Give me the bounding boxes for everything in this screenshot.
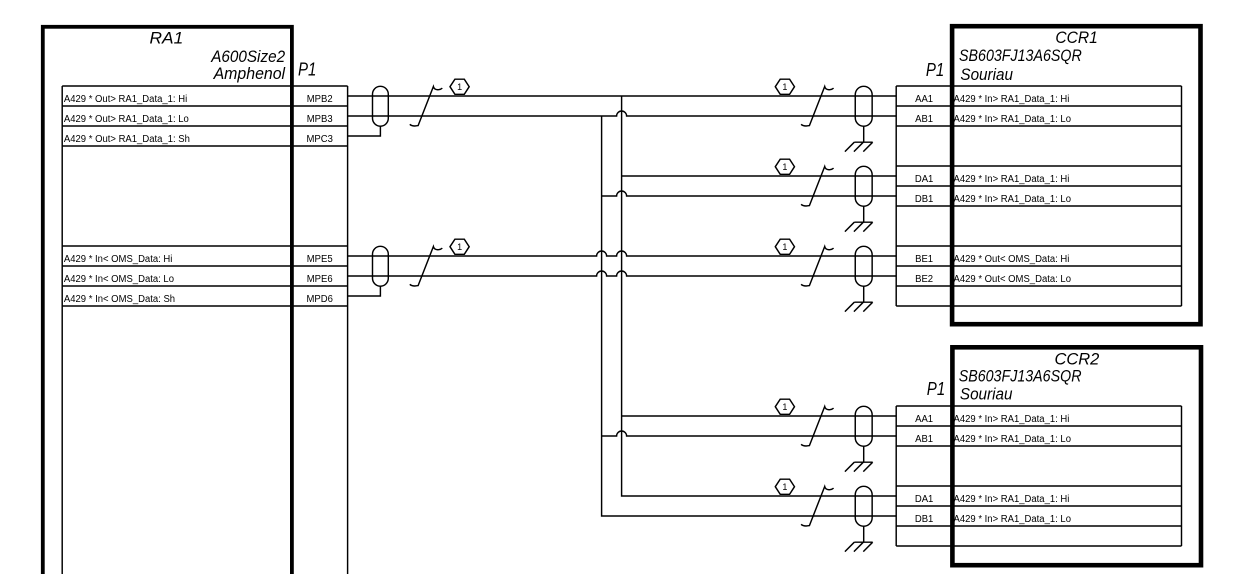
chassis ground at CCR1 BE1/BE2 pair xyxy=(845,286,873,311)
lay/twist slash symbol at CCR1 DA1/DB1 pair xyxy=(801,167,834,206)
wire Lo bus vertical (node RA1_Data_1 Lo) down to CCR2 DB1 xyxy=(602,116,897,516)
svg-text:A429 * Out> RA1_Data_1: Lo: A429 * Out> RA1_Data_1: Lo xyxy=(64,114,189,125)
svg-text:A429 * Out> RA1_Data_1: Sh: A429 * Out> RA1_Data_1: Sh xyxy=(64,134,190,145)
shield symbol (twisted shielded pair) at CCR2 AA1/AB1 pair xyxy=(855,406,872,446)
wire OMS_Data Sh: MPD6 to shield symbol xyxy=(348,286,381,296)
wire RA1_Data_1 Sh: MPC3 to shield symbol xyxy=(348,126,381,136)
svg-text:A429 * In> RA1_Data_1: Hi: A429 * In> RA1_Data_1: Hi xyxy=(954,94,1070,105)
svg-text:RA1: RA1 xyxy=(150,28,184,47)
svg-text:1: 1 xyxy=(782,242,787,252)
svg-text:SB603FJ13A6SQR: SB603FJ13A6SQR xyxy=(959,366,1082,385)
svg-text:A429 * In> RA1_Data_1: Hi: A429 * In> RA1_Data_1: Hi xyxy=(954,414,1070,425)
svg-text:CCR1: CCR1 xyxy=(1055,28,1097,47)
shield symbol (twisted shielded pair) at CCR1 DA1/DB1 pair xyxy=(855,166,872,206)
svg-text:AB1: AB1 xyxy=(915,434,933,445)
bundle callout hexagon 1 at CCR1 AA1/AB1 pair xyxy=(775,79,794,94)
bundle callout hexagon 1 at CCR2 AA1/AB1 pair xyxy=(775,399,794,414)
shield symbol (twisted shielded pair) at RA1 side of OMS_Data pair xyxy=(373,246,389,286)
lay/twist slash symbol at CCR2 AA1/AB1 pair xyxy=(801,407,834,446)
lay/twist slash symbol at RA1 side of OMS_Data pair xyxy=(410,247,443,286)
connector CCR2 box outline xyxy=(952,347,1201,565)
svg-text:MPE5: MPE5 xyxy=(307,254,333,265)
shield symbol (twisted shielded pair) at CCR2 DA1/DB1 pair xyxy=(855,486,872,526)
wire RA1_Data_1 Hi: MPB2 to CCR1 AA1 xyxy=(348,95,897,97)
svg-text:1: 1 xyxy=(782,162,787,172)
svg-text:A429 * In< OMS_Data: Sh: A429 * In< OMS_Data: Sh xyxy=(64,294,175,305)
svg-text:BE1: BE1 xyxy=(915,254,933,265)
svg-text:A429 * In> RA1_Data_1: Lo: A429 * In> RA1_Data_1: Lo xyxy=(954,514,1072,525)
wire RA1_Data_1 Hi branch to CCR1 DA1 xyxy=(622,175,897,177)
svg-text:MPB2: MPB2 xyxy=(307,94,333,105)
lay/twist slash symbol at RA1 side of RA1_Data_1 pair xyxy=(410,87,443,126)
svg-text:DA1: DA1 xyxy=(915,494,934,505)
svg-text:A429 * Out< OMS_Data: Hi: A429 * Out< OMS_Data: Hi xyxy=(954,254,1070,265)
svg-text:P1: P1 xyxy=(298,60,316,80)
wire RA1_Data_1 Lo branch to CCR2 AB1 (hop over Hi bus) xyxy=(602,431,897,436)
bundle callout hexagon 1 at RA1 side of RA1_Data_1 pair xyxy=(450,79,469,94)
svg-text:1: 1 xyxy=(782,82,787,92)
wire RA1_Data_1 Lo: MPB3 to CCR1 AB1 (hop over Hi bus) xyxy=(348,111,897,116)
svg-text:AA1: AA1 xyxy=(915,414,933,425)
svg-text:P1: P1 xyxy=(927,379,945,399)
svg-text:A429 * In> RA1_Data_1: Lo: A429 * In> RA1_Data_1: Lo xyxy=(954,194,1072,205)
bundle callout hexagon 1 at CCR1 DA1/DB1 pair xyxy=(775,159,794,174)
shield symbol (twisted shielded pair) at CCR1 AA1/AB1 pair xyxy=(855,86,872,126)
svg-text:MPC3: MPC3 xyxy=(307,134,334,145)
svg-text:A429 * Out> RA1_Data_1: Hi: A429 * Out> RA1_Data_1: Hi xyxy=(64,94,187,105)
RA1 signal/pin table grid xyxy=(62,86,347,574)
svg-text:A429 * Out< OMS_Data: Lo: A429 * Out< OMS_Data: Lo xyxy=(954,274,1072,285)
connector RA1 box outline xyxy=(43,27,292,574)
wire Hi bus vertical (node RA1_Data_1 Hi) down to CCR2 DA1 xyxy=(622,96,897,496)
bundle callout hexagon 1 at CCR1 BE1/BE2 pair xyxy=(775,239,794,254)
CCR1 signal/pin table grid xyxy=(896,86,1181,306)
lay/twist slash symbol at CCR2 DA1/DB1 pair xyxy=(801,487,834,526)
svg-text:A429 * In> RA1_Data_1: Lo: A429 * In> RA1_Data_1: Lo xyxy=(954,434,1072,445)
shield symbol (twisted shielded pair) at RA1 side of RA1_Data_1 pair xyxy=(373,86,389,126)
shield symbol (twisted shielded pair) at CCR1 BE1/BE2 pair xyxy=(855,246,872,286)
wire OMS_Data Lo: MPE6 to CCR1 BE2 (hops over both buses) xyxy=(348,271,897,276)
wire RA1_Data_1 Hi branch to CCR2 AA1 xyxy=(622,415,897,417)
svg-text:DB1: DB1 xyxy=(915,194,934,205)
svg-text:A429 * In> RA1_Data_1: Hi: A429 * In> RA1_Data_1: Hi xyxy=(954,494,1070,505)
svg-text:A429 * In< OMS_Data: Lo: A429 * In< OMS_Data: Lo xyxy=(64,274,175,285)
bundle callout hexagon 1 at RA1 side of OMS_Data pair xyxy=(450,239,469,254)
svg-text:MPD6: MPD6 xyxy=(307,294,334,305)
svg-text:A429 * In> RA1_Data_1: Lo: A429 * In> RA1_Data_1: Lo xyxy=(954,114,1072,125)
CCR2 signal/pin table grid xyxy=(896,406,1181,546)
svg-text:DA1: DA1 xyxy=(915,174,934,185)
chassis ground at CCR2 DA1/DB1 pair xyxy=(845,526,873,551)
bundle callout hexagon 1 at CCR2 DA1/DB1 pair xyxy=(775,479,794,494)
svg-text:MPB3: MPB3 xyxy=(307,114,333,125)
svg-text:A429 * In< OMS_Data: Hi: A429 * In< OMS_Data: Hi xyxy=(64,254,172,265)
connector CCR1 box outline xyxy=(952,26,1200,324)
svg-text:Souriau: Souriau xyxy=(960,65,1013,84)
svg-text:1: 1 xyxy=(782,402,787,412)
chassis ground at CCR1 DA1/DB1 pair xyxy=(845,206,873,231)
chassis ground at CCR1 AA1/AB1 pair xyxy=(845,126,873,151)
svg-text:P1: P1 xyxy=(926,60,944,80)
svg-text:Amphenol: Amphenol xyxy=(213,64,287,83)
wire RA1_Data_1 Lo branch to CCR1 DB1 (hop over Hi bus) xyxy=(602,191,897,196)
svg-text:1: 1 xyxy=(782,482,787,492)
chassis ground at CCR2 AA1/AB1 pair xyxy=(845,446,873,471)
lay/twist slash symbol at CCR1 BE1/BE2 pair xyxy=(801,247,834,286)
wire OMS_Data Hi: MPE5 to CCR1 BE1 (hops over both buses) xyxy=(348,251,897,256)
svg-text:MPE6: MPE6 xyxy=(307,274,333,285)
svg-text:A429 * In> RA1_Data_1: Hi: A429 * In> RA1_Data_1: Hi xyxy=(954,174,1070,185)
svg-text:1: 1 xyxy=(457,242,462,252)
svg-text:1: 1 xyxy=(457,82,462,92)
svg-text:BE2: BE2 xyxy=(915,274,933,285)
lay/twist slash symbol at CCR1 AA1/AB1 pair xyxy=(801,87,834,126)
svg-text:AB1: AB1 xyxy=(915,114,933,125)
svg-text:AA1: AA1 xyxy=(915,94,933,105)
svg-text:SB603FJ13A6SQR: SB603FJ13A6SQR xyxy=(959,46,1082,65)
svg-text:DB1: DB1 xyxy=(915,514,934,525)
svg-text:Souriau: Souriau xyxy=(960,384,1013,403)
